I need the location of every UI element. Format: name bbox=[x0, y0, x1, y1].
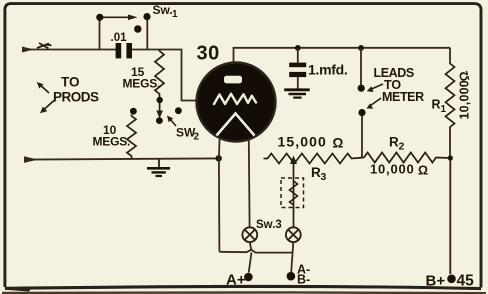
wire: right bus down to B+ bbox=[448, 155, 453, 274]
lamp/contact Sw.3 right bbox=[286, 227, 301, 242]
switch Sw.2 bbox=[130, 97, 200, 143]
wire: capacitor to tube grid bbox=[132, 50, 197, 101]
break mark on probe lead bbox=[37, 43, 51, 49]
svg-text:PRODS: PRODS bbox=[53, 90, 99, 105]
svg-text:Ω: Ω bbox=[333, 136, 344, 151]
svg-text:R: R bbox=[432, 98, 441, 112]
tube V1 type 30 bbox=[197, 43, 276, 142]
svg-text:10,000: 10,000 bbox=[370, 162, 415, 177]
svg-text:B-: B- bbox=[297, 273, 310, 287]
terminal A- / B- bbox=[287, 263, 311, 287]
svg-text:B+: B+ bbox=[426, 273, 446, 290]
svg-text:METER: METER bbox=[382, 90, 424, 104]
svg-text:1.mfd.: 1.mfd. bbox=[308, 62, 347, 78]
svg-text:MEGS.: MEGS. bbox=[93, 135, 131, 149]
svg-text:2: 2 bbox=[399, 141, 405, 153]
svg-text:30: 30 bbox=[197, 43, 220, 65]
svg-text:2: 2 bbox=[194, 132, 200, 143]
text: Sw.3 label bbox=[256, 219, 282, 231]
svg-text:R: R bbox=[389, 135, 399, 150]
text: TO PRODS with probe arrows bbox=[37, 75, 99, 114]
svg-text:TO: TO bbox=[61, 75, 80, 90]
wire: top probe lead with left arrow bbox=[22, 47, 117, 53]
capacitor C2 1 mfd bbox=[289, 48, 347, 89]
svg-text:1: 1 bbox=[172, 9, 178, 20]
wire: filament legs and battery connections bbox=[219, 138, 293, 273]
svg-text:Ω: Ω bbox=[418, 164, 428, 178]
ground: grid-leak ground bbox=[147, 160, 170, 177]
resistor 15 MEGS bbox=[123, 50, 165, 98]
resistor R3 15,000 ohm potentiometer bbox=[264, 134, 365, 184]
svg-text:15,000: 15,000 bbox=[278, 134, 327, 150]
text: LEADS TO METER with arrows bbox=[367, 66, 425, 109]
svg-text:A+: A+ bbox=[226, 272, 246, 289]
switch Sw.1 bbox=[96, 3, 178, 50]
svg-text:MEGS.: MEGS. bbox=[123, 77, 161, 91]
svg-text:Sw.: Sw. bbox=[153, 3, 173, 17]
svg-text:.01: .01 bbox=[111, 32, 128, 44]
ground: bypass capacitor ground bbox=[284, 90, 310, 98]
capacitor C1 .01 bbox=[111, 32, 133, 58]
resistor R1 10,000 ohms bbox=[432, 48, 473, 158]
svg-text:1: 1 bbox=[441, 104, 447, 115]
svg-text:45: 45 bbox=[457, 273, 475, 290]
wire: plate riser and top bus to R1 bbox=[234, 45, 451, 63]
lamp/contact Sw.3 left bbox=[242, 227, 257, 242]
wire: meter leads with open terminals bbox=[358, 48, 366, 159]
resistor 10 MEGS bbox=[93, 115, 137, 160]
svg-text:3: 3 bbox=[321, 171, 327, 183]
svg-text:R: R bbox=[311, 165, 321, 180]
terminal A+ bbox=[226, 272, 253, 289]
wire: bottom probe lead with left arrow and junction dot bbox=[24, 155, 222, 163]
terminal B+ 45 bbox=[426, 273, 475, 290]
resistor R2 10,000 ohms bbox=[364, 135, 450, 178]
svg-text:10,000: 10,000 bbox=[458, 80, 472, 119]
potentiometer wiper with dashed box bbox=[281, 156, 304, 228]
svg-text:Sw.3: Sw.3 bbox=[256, 219, 282, 231]
